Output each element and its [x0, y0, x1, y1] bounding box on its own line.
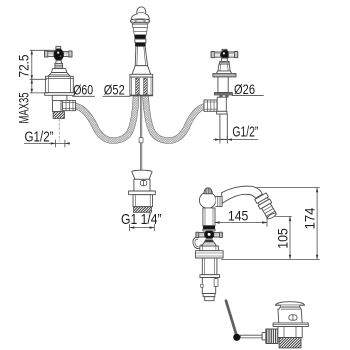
svg-text:145: 145 — [228, 208, 249, 224]
dimension 145 — [215, 208, 267, 227]
waste cap — [276, 302, 305, 307]
spout base cap — [130, 74, 153, 77]
dimension 174 — [255, 188, 320, 260]
left valve centerline dashed — [58, 119, 60, 142]
bidet bell base — [200, 240, 219, 251]
spout base D52 body — [130, 77, 153, 96]
spout upper rings — [132, 24, 147, 35]
spout crest onion dome — [131, 7, 149, 19]
deck reference line — [222, 258, 320, 260]
svg-text:Ø52: Ø52 — [104, 81, 125, 97]
waste flange — [273, 323, 308, 327]
bidet crown finial — [204, 188, 213, 194]
bidet tail end — [203, 294, 215, 301]
waste collar small — [262, 333, 266, 340]
spout flare — [132, 66, 151, 75]
left valve lower spoke — [55, 60, 63, 68]
dimension G1 1/4 line — [130, 224, 155, 230]
bidet tail block — [201, 278, 218, 294]
svg-text:MAX35: MAX35 — [16, 92, 32, 123]
dimension G1/2 right line — [214, 136, 259, 143]
right valve handle cross — [211, 49, 238, 58]
waste upper body — [278, 307, 302, 323]
svg-text:Ø26: Ø26 — [234, 81, 255, 97]
spout black band 2 — [135, 43, 146, 47]
waste hex body — [278, 327, 302, 338]
label D60 — [73, 81, 95, 97]
label D26 — [232, 81, 263, 97]
pop-up horizontal rod — [240, 335, 262, 338]
left valve threaded tail G1/2 — [53, 112, 64, 119]
right valve bell — [216, 58, 231, 73]
waste threaded end — [279, 338, 301, 348]
bidet deck flange — [196, 251, 224, 258]
right valve lower tube — [217, 97, 226, 111]
bidet body column — [203, 208, 215, 226]
dimension 105 — [274, 216, 291, 259]
spout black band 1 — [134, 35, 146, 39]
left valve bell base — [48, 69, 70, 77]
right valve hex fitting — [204, 100, 217, 111]
bidet spout outlet coupling — [255, 193, 279, 221]
bidet handle side view — [196, 229, 222, 238]
dimension 72.5 vertical line — [30, 50, 56, 93]
bidet spout gooseneck — [222, 186, 263, 203]
waste knurled nut — [266, 329, 278, 344]
pop-up lever threaded rod — [226, 301, 236, 335]
right valve escutcheon plate — [213, 73, 236, 77]
svg-text:174: 174 — [302, 207, 318, 229]
right valve pipe G1/2 — [220, 114, 227, 139]
right valve flange D26 — [214, 93, 232, 98]
left valve hex fitting — [63, 100, 76, 110]
svg-text:G1/2”: G1/2” — [232, 124, 258, 140]
bidet hook — [193, 238, 201, 249]
left valve bottom flange — [45, 93, 75, 96]
central drain waste — [129, 170, 156, 212]
left valve neck — [52, 95, 67, 100]
bidet spout aerator nozzle — [262, 203, 276, 218]
pop-up rod central — [139, 96, 143, 170]
pop-up lever ball joint — [233, 334, 240, 341]
left valve handle cross — [45, 46, 72, 60]
svg-text:G1 1/4”: G1 1/4” — [121, 212, 162, 228]
svg-text:72.5: 72.5 — [16, 54, 32, 77]
svg-text:Ø60: Ø60 — [73, 81, 93, 97]
left flex hose — [76, 97, 137, 141]
bidet body black band — [203, 226, 215, 230]
right valve body — [218, 77, 228, 93]
label D52 — [103, 81, 130, 97]
left valve outlet tube — [53, 100, 62, 111]
left valve body D60 — [45, 76, 73, 92]
bidet tail flange — [200, 275, 220, 278]
right flex hose — [146, 97, 205, 141]
right valve ring — [217, 111, 227, 114]
spout neck tube — [135, 39, 146, 43]
dimension G1/2 left line — [24, 140, 69, 147]
bidet tailpiece — [202, 258, 217, 275]
spout collar rings — [130, 19, 149, 24]
bidet body ball — [199, 192, 222, 208]
svg-text:105: 105 — [274, 228, 290, 249]
spout lower body — [135, 46, 147, 65]
